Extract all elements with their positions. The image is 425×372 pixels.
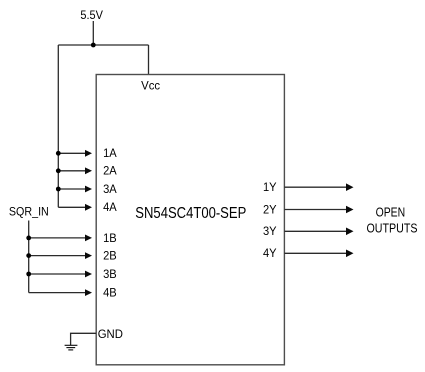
wire 3Y output arrow [284, 228, 353, 236]
svg-text:1Y: 1Y [263, 182, 277, 194]
wire Vcc drop vertical [148, 45, 150, 75]
node OPEN OUTPUTS label [367, 205, 418, 235]
svg-text:SQR_IN: SQR_IN [9, 206, 49, 218]
svg-text:OUTPUTS: OUTPUTS [367, 221, 418, 235]
wire 3B arrow [29, 271, 92, 278]
wire 2A arrow [58, 167, 92, 174]
svg-text:2Y: 2Y [263, 204, 277, 216]
svg-text:OPEN: OPEN [376, 205, 406, 219]
wire GND [71, 333, 97, 345]
junction dot 3A [56, 187, 61, 192]
svg-text:3A: 3A [103, 184, 117, 196]
junction dot 3B [26, 272, 31, 277]
wire 4A arrow [58, 204, 92, 211]
wire 1B arrow [29, 235, 92, 242]
ground symbol [65, 345, 78, 350]
wire 2B arrow [29, 252, 92, 259]
wire 3A arrow [58, 186, 92, 193]
junction dot on 5.5V rail [91, 43, 96, 48]
junction dot 2B [26, 253, 31, 258]
svg-text:5.5V: 5.5V [80, 8, 103, 22]
svg-text:3B: 3B [103, 269, 117, 281]
svg-text:GND: GND [98, 329, 123, 341]
svg-text:1B: 1B [103, 233, 117, 245]
junction dot 2A [56, 168, 61, 173]
wire 2Y output arrow [284, 206, 353, 214]
svg-text:3Y: 3Y [263, 226, 277, 238]
wire 1A arrow [58, 150, 92, 157]
svg-text:4B: 4B [103, 288, 117, 300]
wire 1Y output arrow [284, 183, 353, 191]
wire 4Y output arrow [284, 250, 353, 258]
svg-text:2B: 2B [103, 251, 117, 263]
svg-text:2A: 2A [103, 166, 117, 178]
svg-text:4Y: 4Y [263, 248, 277, 260]
wire 5.5V stub vertical [92, 21, 94, 45]
wire 4B arrow [29, 289, 92, 296]
wire B-bus vertical [28, 221, 30, 293]
wire top horizontal rail [58, 44, 148, 46]
junction dot 1B [26, 236, 31, 241]
svg-text:Vcc: Vcc [141, 81, 160, 93]
svg-text:SN54SC4T00-SEP: SN54SC4T00-SEP [135, 205, 246, 222]
wire A-bus vertical [57, 45, 59, 207]
IC U1 body SN54SC4T00-SEP [96, 75, 284, 365]
svg-text:4A: 4A [103, 202, 117, 214]
svg-text:1A: 1A [103, 148, 117, 160]
junction dot 1A [56, 151, 61, 156]
